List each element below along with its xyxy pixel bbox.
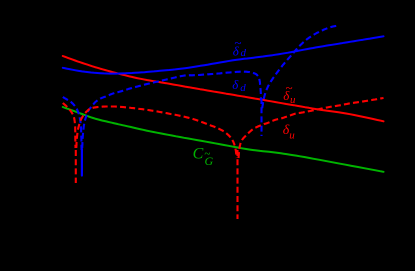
svg-text:d: d: [240, 82, 246, 94]
svg-text:C: C: [193, 146, 204, 163]
svg-text:~: ~: [285, 80, 292, 95]
curve delta-tilde-d blue solid: [63, 36, 384, 73]
svg-text:~: ~: [204, 148, 210, 160]
svg-text:u: u: [290, 94, 296, 106]
svg-text:u: u: [289, 130, 295, 142]
wire blue spike solid core at x=82: [81, 149, 83, 176]
svg-text:δ: δ: [232, 77, 239, 92]
curve C-G-tilde green solid: [63, 107, 384, 172]
svg-text:d: d: [241, 47, 247, 59]
curve delta-d blue dashed: [63, 26, 338, 151]
curve delta-u red dashed: [63, 98, 384, 219]
curve delta-tilde-u red solid: [63, 56, 384, 121]
